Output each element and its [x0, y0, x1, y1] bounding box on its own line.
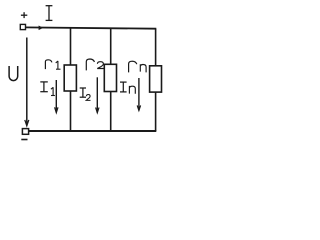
current label I — [46, 6, 53, 21]
voltage arrow U (shaft) — [26, 38, 28, 126]
top wire — [25, 27, 156, 28]
label rn — [129, 61, 137, 72]
current arrow on top wire — [39, 26, 44, 31]
branch wire n (vertical, through Rn) — [155, 29, 157, 131]
label I1 subscript 1 — [51, 87, 55, 95]
current label I2 — [80, 88, 86, 97]
label r1 subscript 1 — [56, 61, 61, 69]
plus sign (top terminal polarity) — [21, 12, 27, 18]
label rn subscript n — [140, 64, 146, 72]
voltage label U — [9, 66, 18, 81]
branch wire 2 (vertical, through R2) — [110, 28, 112, 131]
branch wire 1 (vertical, through R1) — [70, 28, 72, 131]
current arrow I1 — [55, 80, 57, 113]
resistor Rn (box) — [150, 66, 162, 92]
minus sign (bottom terminal polarity) — [21, 139, 27, 141]
label r2 subscript 2 — [97, 62, 104, 69]
label r2 — [86, 59, 94, 70]
current label In — [120, 82, 127, 92]
label In subscript n — [129, 86, 135, 94]
bottom terminal (open square) — [22, 129, 28, 135]
current arrow In — [138, 78, 140, 110]
bottom wire — [29, 130, 157, 132]
resistor R1 (box) — [64, 65, 76, 91]
current arrow I2 — [96, 77, 98, 112]
top terminal (open square) — [20, 24, 25, 29]
resistor R2 (box) — [104, 64, 116, 91]
voltage arrow U (head) — [25, 120, 29, 126]
label I2 subscript 2 — [86, 95, 90, 101]
current label I1 — [40, 82, 48, 92]
label r1 — [45, 60, 52, 69]
